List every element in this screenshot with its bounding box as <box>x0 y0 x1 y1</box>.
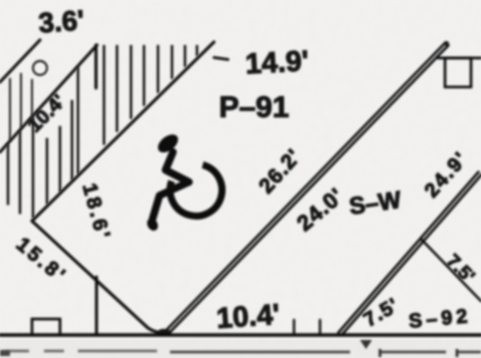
svg-text:10.4': 10.4' <box>215 299 280 335</box>
svg-text:P–91: P–91 <box>219 91 289 124</box>
svg-text:14.9': 14.9' <box>245 45 310 80</box>
svg-text:3.6': 3.6' <box>38 4 86 38</box>
